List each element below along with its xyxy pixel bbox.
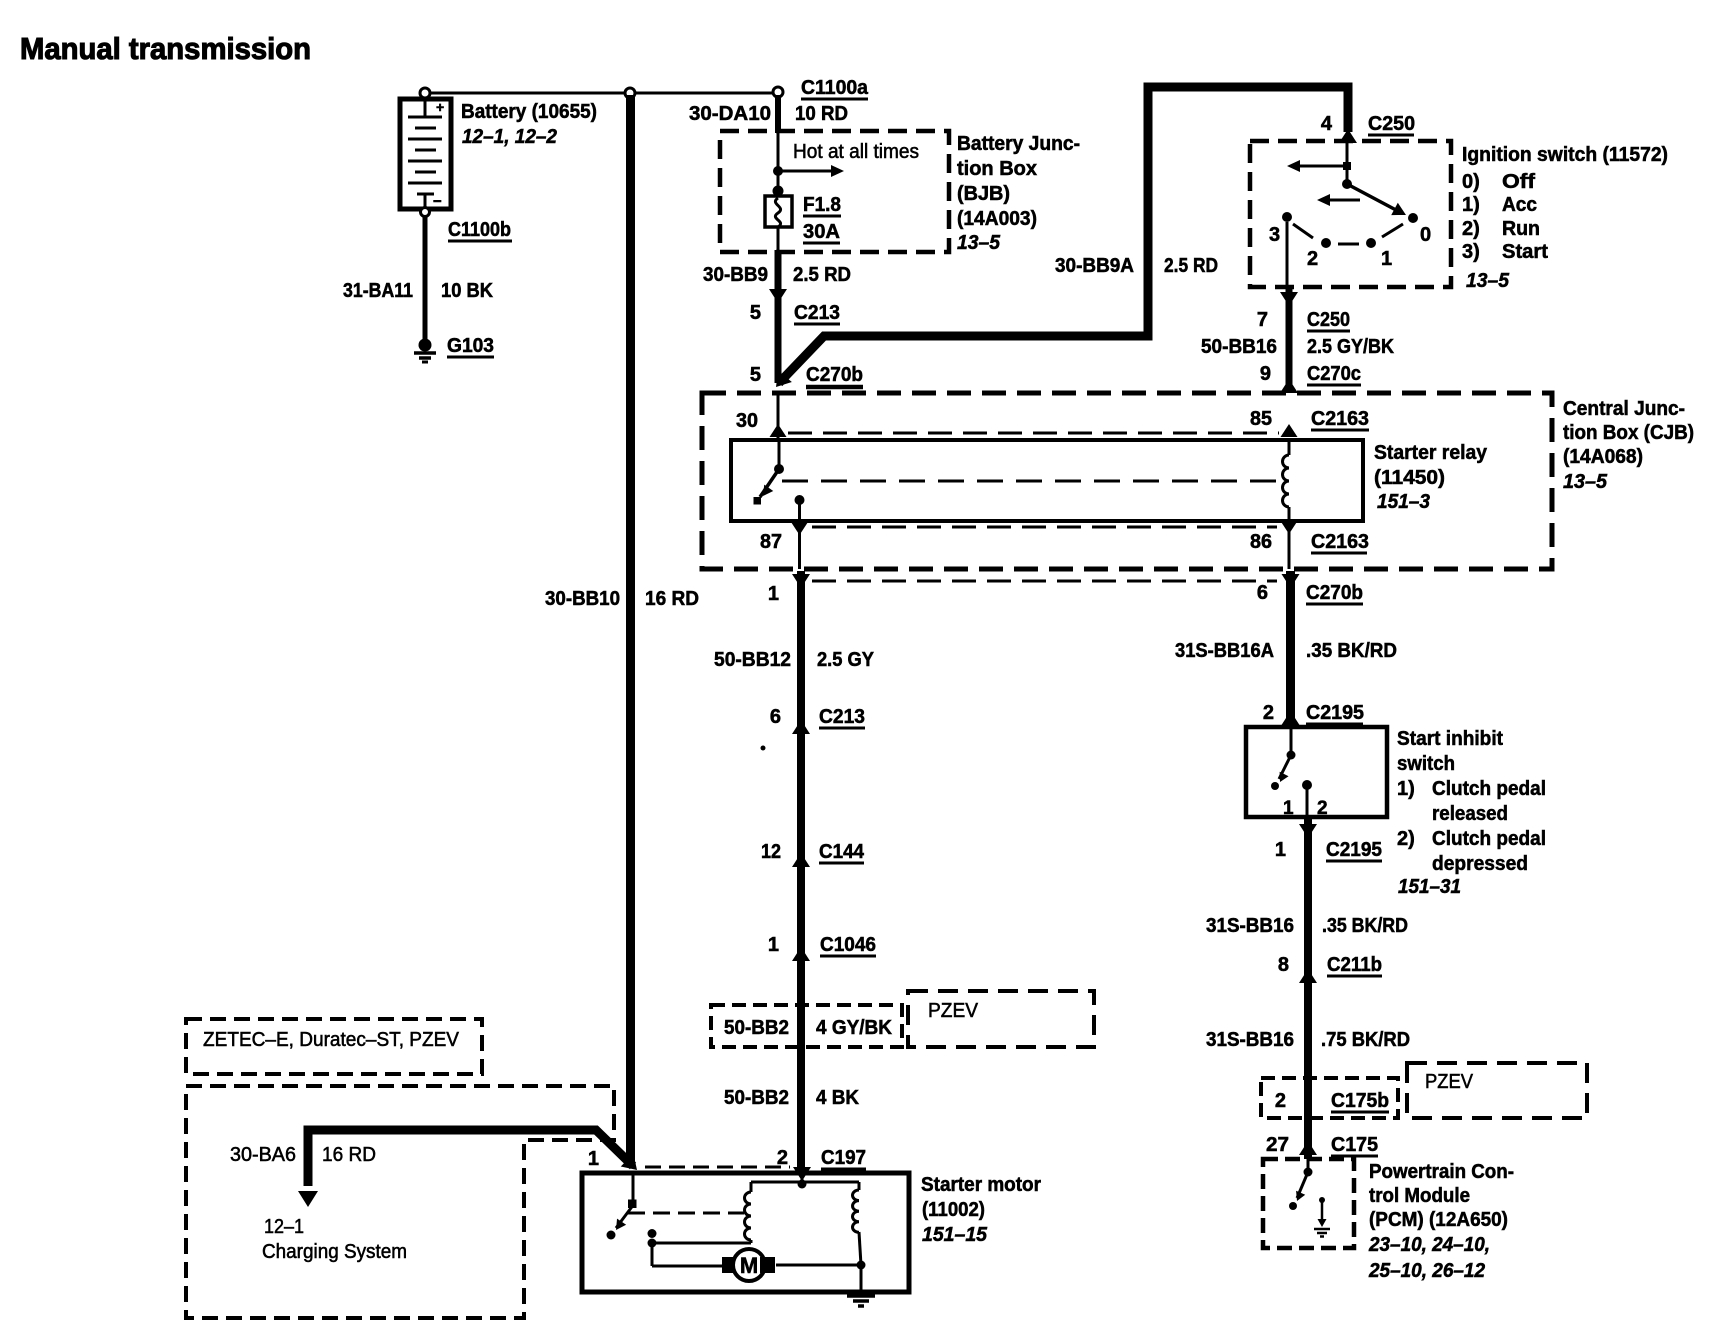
- label: Ignition switch (11572) legend: [1462, 144, 1668, 292]
- svg-text:16 RD: 16 RD: [322, 1144, 376, 1166]
- svg-text:Acc: Acc: [1502, 194, 1537, 216]
- wire 30-BA6 16 RD (charging system feed): [308, 1130, 633, 1186]
- wire 31S-BB16A .35 BK/RD (CJB to start inhibit switch): [1286, 571, 1295, 726]
- arrow into C1046 pin 1 (up): [792, 947, 810, 961]
- powertrain control module (PCM) dashed box: [1263, 1159, 1354, 1248]
- svg-text:1: 1: [768, 934, 779, 956]
- svg-text:30-DA10: 30-DA10: [689, 103, 771, 125]
- relay coil: [1283, 442, 1290, 519]
- svg-text:.75 BK/RD: .75 BK/RD: [1321, 1029, 1410, 1051]
- svg-text:13–5: 13–5: [1563, 471, 1608, 493]
- svg-text:.35 BK/RD: .35 BK/RD: [1306, 640, 1397, 662]
- connector C2163 dashed line (top): [788, 432, 1279, 435]
- svg-text:Clutch pedal: Clutch pedal: [1432, 828, 1546, 850]
- svg-text:50-BB12: 50-BB12: [714, 649, 791, 671]
- svg-text:Powertrain Con-: Powertrain Con-: [1369, 1161, 1514, 1183]
- PZEV dashed box (right): [1407, 1063, 1587, 1118]
- wire 30-BB10 16 RD (battery to starter motor solenoid): [626, 95, 635, 1167]
- arrow: hot bus arrow (points right): [778, 170, 832, 173]
- connector C175b dashed callout box: [1261, 1078, 1398, 1118]
- svg-text:23–10, 24–10,: 23–10, 24–10,: [1368, 1234, 1490, 1256]
- node: BJB bus junction: [773, 166, 783, 176]
- svg-text:C270b: C270b: [1306, 582, 1363, 604]
- svg-text:50-BB2: 50-BB2: [724, 1087, 789, 1109]
- svg-text:1: 1: [1381, 248, 1392, 270]
- svg-text:4 BK: 4 BK: [816, 1087, 860, 1109]
- svg-text:PZEV: PZEV: [928, 1000, 979, 1022]
- svg-text:13–5: 13–5: [1466, 270, 1510, 292]
- label: Starter motor (11002) 151-15: [921, 1174, 1041, 1246]
- svg-text:F1.8: F1.8: [803, 194, 841, 216]
- wire 31-BA11 10 BK (battery negative to ground): [423, 216, 428, 341]
- svg-text:31-BA11: 31-BA11: [343, 280, 413, 302]
- svg-text:31S-BB16: 31S-BB16: [1206, 915, 1294, 937]
- svg-text:PZEV: PZEV: [1425, 1071, 1474, 1093]
- arrow into C211b pin 8 (up): [1299, 969, 1317, 983]
- svg-text:151–15: 151–15: [922, 1224, 988, 1246]
- arrow out of C2195 pin 1 (down): [1299, 824, 1317, 838]
- svg-text:C144: C144: [819, 841, 865, 863]
- ground (starter motor case): [847, 1296, 875, 1306]
- svg-text:(PCM) (12A650): (PCM) (12A650): [1369, 1209, 1508, 1231]
- svg-text:Start inhibit: Start inhibit: [1397, 728, 1503, 750]
- svg-text:Ignition switch (11572): Ignition switch (11572): [1462, 144, 1668, 166]
- svg-text:(11002): (11002): [922, 1199, 985, 1221]
- svg-text:Battery Junc-: Battery Junc-: [957, 133, 1080, 155]
- node C1100a (open terminal circle): [773, 87, 783, 97]
- svg-text:151–31: 151–31: [1398, 876, 1461, 898]
- wire: starter internal feed rail: [751, 1181, 859, 1184]
- svg-text:C2195: C2195: [1306, 702, 1364, 724]
- svg-text:2.5 RD: 2.5 RD: [1164, 255, 1218, 277]
- svg-text:2.5 GY/BK: 2.5 GY/BK: [1307, 336, 1394, 358]
- wire: relay pin 87 lead to CJB edge: [798, 521, 801, 569]
- svg-text:85: 85: [1250, 408, 1272, 430]
- svg-text:27: 27: [1266, 1134, 1289, 1156]
- svg-text:8: 8: [1278, 954, 1289, 976]
- svg-text:1): 1): [1462, 194, 1480, 216]
- svg-text:7: 7: [1257, 309, 1268, 331]
- svg-text:50-BB2: 50-BB2: [724, 1017, 789, 1039]
- svg-text:Manual transmission: Manual transmission: [20, 31, 311, 66]
- svg-text:tion Box (CJB): tion Box (CJB): [1563, 422, 1694, 444]
- starter motor (11002) box: [582, 1173, 909, 1292]
- svg-text:12–1: 12–1: [264, 1216, 304, 1238]
- label: Starter relay (11450) 151-3: [1374, 442, 1488, 513]
- svg-text:30-BB9A: 30-BB9A: [1055, 255, 1134, 277]
- svg-text:Starter relay: Starter relay: [1374, 442, 1488, 464]
- svg-text:1: 1: [1275, 839, 1286, 861]
- arrow into C144 pin 12 (up): [792, 853, 810, 867]
- arrow out of relay pin 87 (down): [791, 522, 808, 535]
- wire: battery positive bus (top horizontal): [425, 92, 776, 95]
- svg-text:.35 BK/RD: .35 BK/RD: [1322, 915, 1408, 937]
- node: field coil junction: [857, 1261, 866, 1270]
- svg-text:(BJB): (BJB): [957, 183, 1010, 205]
- battery junction box (BJB) dashed outline: [720, 131, 949, 252]
- starter field coil: [852, 1182, 861, 1265]
- svg-text:released: released: [1432, 803, 1508, 825]
- svg-text:30-BA6: 30-BA6: [230, 1144, 296, 1166]
- starter relay (11450) box: [731, 440, 1363, 521]
- svg-text:1): 1): [1397, 778, 1415, 800]
- fuse F1.8 30A: [765, 186, 792, 228]
- svg-text:C211b: C211b: [1327, 954, 1382, 976]
- relay contact 87 terminal: [795, 495, 805, 505]
- wire: fuse output inside BJB: [777, 227, 780, 252]
- arrow into starter pin 1 (down-right): [621, 1154, 644, 1177]
- svg-text:87: 87: [760, 531, 782, 553]
- label: Battery Junction Box (BJB) (14A003) 13-5: [957, 133, 1080, 254]
- arrow into C175 pin 27 (up): [1299, 1141, 1317, 1155]
- svg-text:0: 0: [1420, 224, 1431, 246]
- central junction box (CJB) dashed outline: [702, 393, 1552, 569]
- PCM internal switch: [1289, 1159, 1313, 1210]
- svg-text:13–5: 13–5: [957, 232, 1001, 254]
- wire 30-DA10 10 RD (battery bus into BJB): [775, 95, 781, 133]
- svg-text:86: 86: [1250, 531, 1272, 553]
- arrow to charging system (down): [298, 1191, 318, 1207]
- svg-text:Central Junc-: Central Junc-: [1563, 398, 1685, 420]
- svg-text:0): 0): [1462, 171, 1480, 193]
- ZETEC-E, Duratec-ST, PZEV dashed box: [186, 1019, 482, 1074]
- arrow out of C270b pin 1 (down): [792, 574, 810, 588]
- arrow into C2195 pin 2 (up): [1282, 711, 1300, 725]
- wire: CJB pin 30 lead: [777, 395, 780, 440]
- PCM internal ground: [1314, 1197, 1330, 1237]
- svg-text:30-BB9: 30-BB9: [703, 264, 768, 286]
- svg-text:10 BK: 10 BK: [441, 280, 493, 302]
- svg-text:Clutch pedal: Clutch pedal: [1432, 778, 1546, 800]
- engine-variant region dashed outline (L shape): [186, 1086, 614, 1318]
- arrow into C213 pin 6 (up): [792, 720, 810, 734]
- arrow out of relay pin 86 (down): [1281, 521, 1298, 534]
- svg-text:16 RD: 16 RD: [645, 588, 699, 610]
- svg-text:(14A003): (14A003): [957, 208, 1037, 230]
- starter motor M: [722, 1249, 775, 1281]
- svg-text:Starter motor: Starter motor: [921, 1174, 1041, 1196]
- 50-BB2 4 GY/BK dashed callout box: [711, 1005, 902, 1047]
- svg-text:tion Box: tion Box: [957, 158, 1037, 180]
- label: Central Junction Box (CJB) (14A068) 13-5: [1563, 398, 1694, 493]
- wire 31S-BB16 .35/.75 BK/RD (inhibit switch to PCM): [1304, 817, 1312, 1159]
- svg-text:C2163: C2163: [1311, 531, 1369, 553]
- svg-text:C1046: C1046: [820, 934, 876, 956]
- svg-text:2): 2): [1397, 828, 1415, 850]
- svg-text:50-BB16: 50-BB16: [1201, 336, 1277, 358]
- svg-text:Hot at all times: Hot at all times: [793, 141, 919, 163]
- solenoid actuation dashed line: [628, 1212, 744, 1215]
- svg-text:2.5 GY: 2.5 GY: [817, 649, 875, 671]
- wire: relay pin 86 lead to CJB edge: [1288, 521, 1291, 569]
- svg-text:C175: C175: [1331, 1134, 1378, 1156]
- start inhibit switch box: [1246, 727, 1387, 817]
- svg-text:−: −: [433, 193, 442, 210]
- svg-text:+: +: [436, 99, 444, 115]
- relay actuation dashed line: [782, 480, 1282, 483]
- wire: starter ground lead: [860, 1265, 863, 1294]
- svg-text:1: 1: [768, 583, 779, 605]
- wire: solenoid coil to motor path: [652, 1243, 751, 1266]
- svg-text:4 GY/BK: 4 GY/BK: [816, 1017, 893, 1039]
- svg-text:10 RD: 10 RD: [795, 103, 848, 125]
- wire 50-BB16 2.5 GY/BK (ignition switch pin 3 to CJB): [1286, 287, 1293, 392]
- PZEV dashed box (middle): [908, 991, 1094, 1047]
- svg-text:9: 9: [1260, 363, 1271, 385]
- wire 50-BB12 2.5 GY (relay 87 to starter solenoid): [797, 571, 805, 1172]
- ignition switch internals: [1282, 141, 1418, 287]
- svg-text:depressed: depressed: [1432, 853, 1528, 875]
- svg-text:ZETEC–E, Duratec–ST, PZEV: ZETEC–E, Duratec–ST, PZEV: [203, 1029, 460, 1051]
- svg-text:30-BB10: 30-BB10: [545, 588, 620, 610]
- svg-text:C1100a: C1100a: [801, 77, 869, 99]
- wire 30-BB9A 2.5 RD (C270b junction up and over to ignition switch): [779, 87, 1348, 383]
- svg-text:2: 2: [1263, 702, 1274, 724]
- speck (scan artifact): [761, 746, 766, 751]
- svg-text:C2163: C2163: [1311, 408, 1369, 430]
- svg-text:C197: C197: [821, 1147, 866, 1169]
- node: pin 2 entry junction: [801, 1175, 804, 1184]
- solenoid contact studs: [648, 1229, 657, 1238]
- svg-text:Start: Start: [1502, 241, 1548, 263]
- svg-text:M: M: [740, 1253, 758, 1278]
- wire: motor to field coil junction: [776, 1264, 861, 1267]
- starter relay switch contact: [754, 442, 785, 505]
- svg-text:4: 4: [1321, 113, 1333, 135]
- arrow into ignition switch pin 4 (up): [1339, 129, 1357, 143]
- svg-text:trol Module: trol Module: [1369, 1185, 1470, 1207]
- svg-text:1: 1: [1283, 798, 1294, 819]
- ground G103: [414, 339, 436, 363]
- svg-text:C270b: C270b: [806, 364, 863, 386]
- label: Powertrain Control Module (PCM) (12A650): [1368, 1161, 1514, 1282]
- arrow out of C270b pin 6 (down): [1282, 574, 1300, 588]
- connector C270b dashed line: [812, 580, 1277, 583]
- svg-text:(14A068): (14A068): [1563, 446, 1643, 468]
- svg-text:6: 6: [1257, 582, 1268, 604]
- svg-text:Charging System: Charging System: [262, 1241, 407, 1263]
- ignition switch (11572) dashed box: [1250, 141, 1451, 287]
- arrow into C270c pin 9 (up): [1280, 379, 1298, 393]
- svg-text:3): 3): [1462, 241, 1480, 263]
- svg-text:C1100b: C1100b: [448, 219, 511, 241]
- svg-text:(11450): (11450): [1374, 467, 1445, 489]
- svg-text:30: 30: [736, 410, 758, 432]
- svg-text:Battery (10655): Battery (10655): [461, 101, 597, 123]
- svg-text:31S-BB16A: 31S-BB16A: [1175, 640, 1274, 662]
- svg-text:2: 2: [1307, 248, 1318, 270]
- start inhibit switch internals: [1271, 729, 1312, 817]
- svg-text:2.5 RD: 2.5 RD: [793, 264, 851, 286]
- svg-text:C250: C250: [1368, 113, 1415, 135]
- svg-text:C250: C250: [1307, 309, 1350, 331]
- svg-text:2: 2: [1317, 798, 1328, 819]
- connector C2163 dashed line (bottom): [812, 526, 1277, 529]
- svg-text:12: 12: [761, 841, 781, 863]
- svg-text:5: 5: [750, 364, 761, 386]
- svg-text:Off: Off: [1502, 171, 1535, 193]
- svg-text:C213: C213: [819, 706, 865, 728]
- wire: BJB internal feed to fuse: [777, 133, 780, 190]
- svg-text:Run: Run: [1502, 218, 1540, 240]
- arrow into C213 pin 5 (down): [769, 289, 787, 303]
- svg-text:switch: switch: [1397, 753, 1455, 775]
- svg-text:6: 6: [770, 706, 781, 728]
- solenoid pull-in coil: [745, 1182, 751, 1243]
- svg-text:12–1, 12–2: 12–1, 12–2: [462, 126, 557, 148]
- connector C197 dashed line: [645, 1166, 790, 1169]
- battery (10655): [400, 88, 451, 217]
- svg-text:C213: C213: [794, 302, 840, 324]
- label: Start inhibit switch legend: [1397, 728, 1546, 898]
- svg-text:3: 3: [1269, 224, 1280, 246]
- svg-text:25–10, 26–12: 25–10, 26–12: [1368, 1260, 1485, 1282]
- svg-text:30A: 30A: [803, 221, 840, 243]
- svg-text:C175b: C175b: [1331, 1090, 1389, 1112]
- arrow out of C250 pin 7 (down): [1280, 292, 1298, 306]
- node: junction of 30-BB10 feed on battery bus: [625, 88, 635, 98]
- arrow into relay pin 30 (up): [770, 424, 787, 437]
- starter solenoid switch: [607, 1175, 637, 1240]
- svg-text:2: 2: [1275, 1090, 1286, 1112]
- svg-text:5: 5: [750, 302, 761, 324]
- svg-text:31S-BB16: 31S-BB16: [1206, 1029, 1294, 1051]
- svg-text:151–3: 151–3: [1377, 491, 1430, 513]
- svg-text:C2195: C2195: [1326, 839, 1382, 861]
- svg-text:G103: G103: [447, 335, 494, 357]
- arrow into relay pin 85 (up): [1281, 424, 1298, 437]
- svg-text:1: 1: [588, 1148, 599, 1170]
- arrow into C270b pin 5 (down-left): [769, 370, 792, 392]
- svg-text:C270c: C270c: [1307, 363, 1361, 385]
- wire 30-BB9 2.5 RD (BJB to CJB): [775, 250, 782, 383]
- svg-text:2): 2): [1462, 218, 1480, 240]
- arrow into C197 pin 2 (down): [793, 1167, 811, 1181]
